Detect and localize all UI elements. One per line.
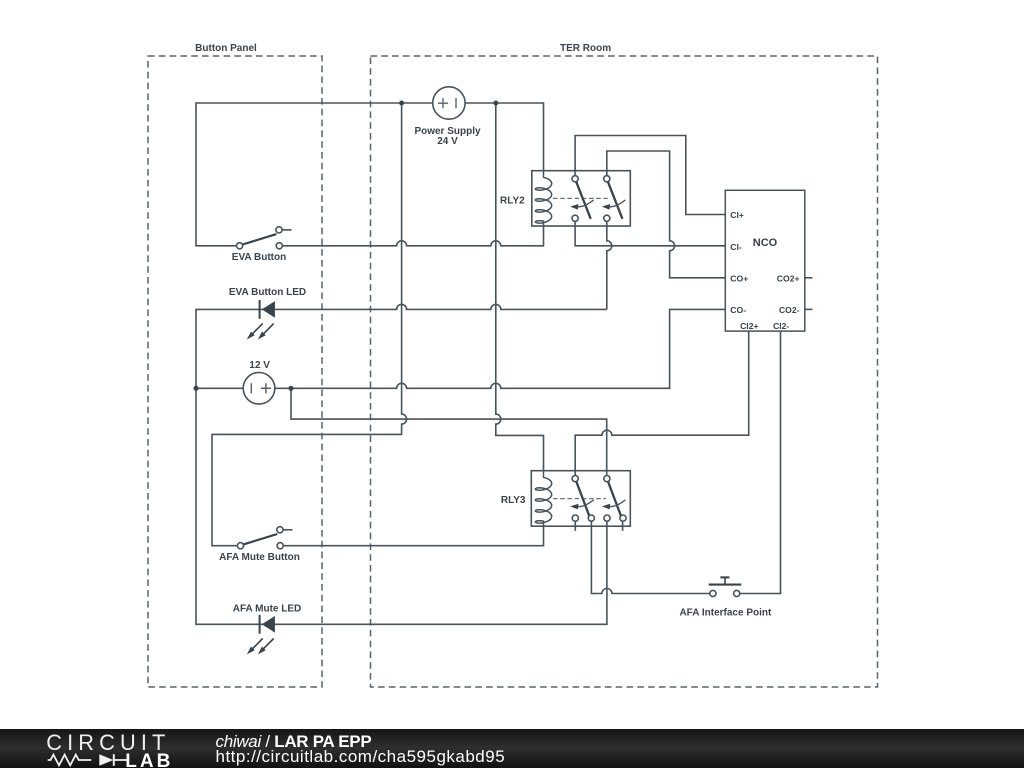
relay contact 1 bottom NO terminal	[588, 515, 594, 521]
svg-text:CI2-: CI2-	[773, 321, 789, 331]
LED cathode bar	[259, 300, 261, 319]
CircuitLab logo resistor-diode glyph	[0, 751, 175, 768]
LED D1 EVA Button LED	[229, 287, 306, 339]
svg-text:CO+: CO+	[730, 273, 748, 283]
LED triangle	[262, 616, 275, 633]
relay contact 2 bottom NC terminal	[604, 515, 610, 521]
AFA Mute Button lever	[243, 534, 277, 544]
wire RLY2 contact2 top terminal to NCO CO+ pin (hop over y=245.8 wire)	[607, 151, 726, 278]
wire RLY3 coil bottom to AFA Mute Button output	[283, 526, 543, 546]
LED D2 AFA Mute LED	[233, 604, 302, 655]
wire RLY2 coil bottom to EVA button output (hops at x=496 and x=401)	[282, 226, 543, 246]
EVA Button upper stub	[282, 229, 292, 231]
push button switch AFA Interface Point	[679, 577, 772, 618]
LED cathode bar	[259, 615, 261, 634]
power supply V2 12V	[243, 360, 275, 404]
svg-text:TER Room: TER Room	[560, 43, 611, 54]
svg-text:EVA Button: EVA Button	[232, 252, 286, 263]
junction node 12V plus	[289, 386, 294, 391]
svg-text:CI2+: CI2+	[740, 321, 758, 331]
LED light arrow 2	[258, 639, 274, 655]
relay RLY3	[501, 471, 630, 531]
RLY2 coil	[535, 171, 551, 226]
wire RLY2 contact1 bottom terminal to NCO CI- pin	[575, 221, 725, 245]
CircuitLab logo wordmark	[46, 732, 170, 757]
AFA Mute Button upper stub	[283, 529, 293, 531]
relay contact 1 actuation arrow	[570, 500, 594, 510]
EVA Button common terminal	[237, 243, 243, 249]
relay contact 1 bottom terminal	[572, 215, 578, 221]
wire EVA Button LED net: 12V minus node up, LED row, to RLY2 contact2 bottom (hops at x=401,x=496)	[196, 304, 607, 388]
svg-text:NCO: NCO	[753, 237, 778, 249]
NCO pin CO2- stub	[805, 308, 813, 310]
wire 12V plus to NCO CO- pin (hops at x=401,x=496)	[274, 309, 725, 388]
EVA Button lever	[243, 234, 277, 244]
svg-text:24 V: 24 V	[437, 136, 458, 147]
svg-text:CI-: CI-	[730, 242, 742, 252]
NCO pin CO2+ stub	[805, 277, 813, 279]
relay contact 1 bottom NC terminal	[572, 515, 578, 521]
relay contact 2 bottom NO terminal	[620, 515, 626, 521]
NCO interface box U1	[725, 190, 812, 331]
wire node C: 24V rail branch at x=495.8 down to RLY3 coil top (hop over y=419 wire)	[496, 103, 544, 471]
footer bar	[0, 729, 1024, 768]
LED triangle	[262, 301, 275, 318]
RLY3 actuation dashed line	[553, 498, 606, 500]
junction node on 24V rail at x=401.6	[399, 101, 404, 106]
relay contact 1 top terminal	[572, 476, 578, 482]
svg-text:RLY2: RLY2	[500, 195, 525, 206]
switch AFA Mute Button	[219, 527, 300, 564]
svg-text:CO2-: CO2-	[779, 305, 800, 315]
relay contact 1 actuation arrow	[570, 200, 594, 210]
AFA Mute Button common terminal	[237, 543, 243, 549]
AFA Mute Button lower throw terminal	[277, 543, 283, 549]
svg-text:RLY3: RLY3	[501, 495, 526, 506]
svg-text:CI+: CI+	[730, 210, 744, 220]
LED light arrow 1	[247, 639, 263, 655]
AFA Mute Button upper throw terminal	[277, 527, 283, 533]
relay contact 1 top terminal	[572, 176, 578, 182]
relay contact 2 lever (open)	[608, 182, 623, 219]
wire RLY2 contact2 bottom terminal down to LED row (hop over y=245.8 wire)	[607, 221, 612, 309]
switch EVA Button	[232, 227, 292, 263]
relay contact 2 bottom terminal	[604, 215, 610, 221]
user / title line	[216, 733, 372, 750]
svg-text:AFA Interface Point: AFA Interface Point	[679, 608, 772, 619]
wire 12V plus branch down to RLY3 contact2 top terminal	[291, 388, 607, 475]
TER Room region box	[371, 43, 878, 687]
svg-text:AFA Mute Button: AFA Mute Button	[219, 552, 300, 563]
relay contact 2 lever (closed)	[608, 482, 621, 516]
EVA Button lower throw terminal	[276, 243, 282, 249]
svg-text:AFA Mute LED: AFA Mute LED	[233, 604, 302, 615]
svg-text:CO2+: CO2+	[777, 273, 800, 283]
svg-text:CO-: CO-	[730, 305, 746, 315]
url line	[216, 748, 506, 765]
relay contact 2 top terminal	[604, 176, 610, 182]
wire node B: 24V rail branch at x=401.6 down to AFA Mute Button (hop over y=419 wire)	[212, 103, 407, 546]
CircuitLab logo LAB text	[125, 752, 173, 768]
relay contact 1 lever (open)	[576, 182, 591, 219]
EVA Button upper throw terminal	[276, 227, 282, 233]
Button Panel region box	[148, 43, 322, 687]
wire RLY2 contact1 top terminal to NCO CI+ pin	[575, 136, 725, 215]
RLY3 coil	[535, 471, 551, 527]
wire RLY3 contact1 bottom NO terminal to AFA Interface Point (hop over x=606.9 wire)	[591, 521, 709, 593]
wire 12V minus to left node	[196, 387, 244, 389]
relay contact 1 lever (closed)	[576, 482, 589, 516]
RLY3 NC stub 1	[574, 521, 576, 531]
LED light arrow 1	[247, 324, 263, 340]
LED light arrow 2	[258, 324, 274, 340]
relay contact 2 top terminal	[604, 476, 610, 482]
junction node 12V minus	[194, 386, 199, 391]
svg-text:EVA Button LED: EVA Button LED	[229, 287, 306, 298]
svg-text:Button Panel: Button Panel	[195, 43, 257, 54]
power supply V1 24V	[414, 87, 481, 147]
wire NCO CI2+ pin down and across to RLY3 contact1 top terminal (hop over x=606.7 wire)	[575, 331, 749, 475]
wire AFA Interface Point to NCO CI2- pin	[740, 331, 781, 593]
svg-text:12 V: 12 V	[249, 360, 270, 371]
wire 24V+ top rail: EVA button common up, across power supply, down to RLY2 coil top	[196, 103, 544, 246]
relay RLY2	[500, 171, 630, 226]
relay contact 2 actuation arrow	[602, 500, 626, 510]
RLY3 NO stub 2	[622, 521, 624, 531]
junction node on 24V rail at x=495.8	[493, 101, 498, 106]
wire 12V minus node down to AFA Mute LED row and up to RLY3 contact2 bottom NC terminal	[196, 388, 607, 624]
relay contact 2 actuation arrow	[602, 200, 626, 210]
RLY2 actuation dashed line	[553, 197, 608, 199]
